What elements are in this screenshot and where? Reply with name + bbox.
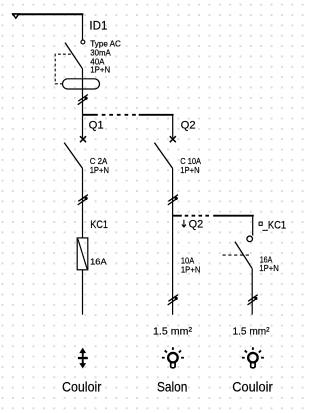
svg-text:1P+N: 1P+N xyxy=(181,265,201,274)
svg-text:1P+N: 1P+N xyxy=(90,166,110,175)
label _KC1 with square marker xyxy=(259,219,286,231)
RCD ID1 switch blade xyxy=(65,43,83,69)
wire: ID1 blade to bus xyxy=(82,69,84,114)
breaker Q1 xyxy=(64,136,86,168)
svg-text:ID1: ID1 xyxy=(89,18,107,32)
breaker Q2 xyxy=(154,136,175,168)
load icon lamp (Salon) xyxy=(162,347,184,368)
conductor marks 1P+N on Couloir branch xyxy=(248,295,258,305)
svg-text:Salon: Salon xyxy=(157,380,187,395)
load icon lamp (Couloir) xyxy=(242,347,264,368)
svg-text:Q2: Q2 xyxy=(189,219,204,231)
ID1 ratings: Type AC 30mA 40A 1P+N xyxy=(90,39,121,74)
svg-text:Type AC: Type AC xyxy=(90,39,121,48)
conductor marks 1P+N on Salon branch xyxy=(168,295,178,305)
wire: feed drop to ID1 terminal xyxy=(82,14,84,40)
svg-text:30mA: 30mA xyxy=(90,49,111,58)
svg-text:Q1: Q1 xyxy=(89,119,104,131)
svg-text:Couloir: Couloir xyxy=(62,380,102,395)
svg-text:1P+N: 1P+N xyxy=(90,65,110,74)
svg-text:_KC1: _KC1 xyxy=(262,219,286,231)
RCD ID1 trip linkage (dashed) xyxy=(55,54,71,84)
svg-text:Couloir: Couloir xyxy=(232,380,273,395)
conductor marks 1P+N on Q2 output xyxy=(168,195,178,205)
svg-text:C 2A: C 2A xyxy=(90,157,108,166)
RCD ID1 terminal circle xyxy=(81,40,85,44)
svg-text:1P+N: 1P+N xyxy=(180,166,200,175)
RCD ID1 differential sensing coil xyxy=(63,79,100,89)
supply feed arrow xyxy=(11,13,20,19)
svg-text:1.5 mm²: 1.5 mm² xyxy=(233,325,270,337)
wire: KC1 to load xyxy=(82,270,84,315)
wire: bus corner to breaker Q2 xyxy=(172,116,174,138)
conductor marks 1P+N on Q1 output xyxy=(78,195,88,205)
contactor coil KC1 xyxy=(77,238,88,270)
wire: Q2 to Salon lamp xyxy=(172,168,174,314)
contact ratings: 16A 1P+N xyxy=(259,255,279,273)
svg-text:16A: 16A xyxy=(260,255,273,264)
svg-text:C 10A: C 10A xyxy=(180,157,201,166)
svg-text:1P+N: 1P+N xyxy=(259,264,279,273)
Q2 branch ratings: 10A 1P+N xyxy=(181,257,201,275)
svg-text:Q2: Q2 xyxy=(181,119,196,131)
Q2 ratings: C 10A 1P+N xyxy=(180,157,201,175)
svg-text:KC1: KC1 xyxy=(90,219,108,231)
svg-text:10A: 10A xyxy=(181,257,195,266)
wire: distribution bus ID1 to Q1/Q2 xyxy=(82,114,174,116)
label cross-reference down-arrow Q2 xyxy=(182,219,203,231)
wire: contact to Couloir lamp xyxy=(251,268,253,314)
svg-text:16A: 16A xyxy=(90,257,107,267)
conductor marks 1P+N on ID1 output xyxy=(78,95,88,105)
wire: control link Q2 to contact _KC1 (dashed + solid) xyxy=(172,216,254,236)
contact _KC1 xyxy=(223,236,253,268)
wire: Q1 to contactor KC1 xyxy=(82,168,84,238)
wire: bus to breaker Q1 xyxy=(82,116,84,138)
svg-text:1.5 mm²: 1.5 mm² xyxy=(153,325,192,337)
supply feed wire xyxy=(12,13,83,15)
Q1 ratings: C 2A 1P+N xyxy=(90,157,110,175)
load icon roller shutter (Couloir) xyxy=(78,348,88,369)
